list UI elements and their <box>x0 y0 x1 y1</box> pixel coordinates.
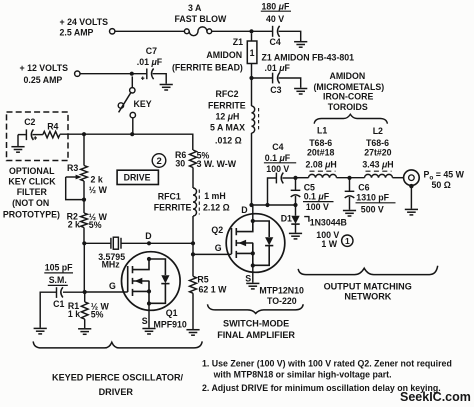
capacitor C1 105pF <box>63 291 85 293</box>
transistor Q1 MPF910 <box>122 252 181 311</box>
svg-text:12 μH: 12 μH <box>216 112 240 122</box>
svg-text:+ 12 VOLTS: + 12 VOLTS <box>20 63 69 73</box>
svg-text:105 pF: 105 pF <box>45 263 73 273</box>
wire <box>84 242 110 244</box>
svg-text:30: 30 <box>175 158 185 168</box>
svg-text:180 μF: 180 μF <box>262 1 290 11</box>
svg-text:C3: C3 <box>270 85 281 95</box>
svg-text:S: S <box>245 273 251 283</box>
node L1/L2/C6 <box>347 176 351 180</box>
svg-text:C1: C1 <box>53 299 64 309</box>
svg-text:1N3044B: 1N3044B <box>310 217 347 227</box>
svg-text:SWITCH-MODE: SWITCH-MODE <box>223 318 289 328</box>
node +12/KEY/C7 <box>130 72 134 76</box>
svg-text:40 V: 40 V <box>266 14 284 24</box>
node column/crystal <box>191 241 195 245</box>
svg-text:50 Ω: 50 Ω <box>432 180 451 190</box>
svg-text:FERRITE: FERRITE <box>208 100 246 110</box>
svg-text:D: D <box>241 205 247 215</box>
svg-text:with MTP8N18 or similar high-v: with MTP8N18 or similar high-voltage par… <box>213 369 392 379</box>
underline 0.1uF C4 <box>264 162 296 164</box>
svg-text:OPTIONAL: OPTIONAL <box>9 166 55 176</box>
svg-text:KEY: KEY <box>134 99 152 109</box>
wire <box>192 216 194 276</box>
potentiometer R3 <box>83 134 85 165</box>
underline SM <box>48 284 68 286</box>
svg-text:20t#18: 20t#18 <box>307 148 334 158</box>
svg-text:AMIDON: AMIDON <box>330 71 366 81</box>
svg-text:D: D <box>145 231 151 241</box>
svg-text:500 V: 500 V <box>361 204 384 214</box>
terminal +12V <box>75 71 80 76</box>
ground connector <box>405 209 418 215</box>
wire 12V bus <box>60 134 193 150</box>
wire <box>192 168 194 189</box>
ferrite bead Z1 <box>247 41 257 64</box>
svg-text:3 A: 3 A <box>188 3 202 13</box>
inductor L1 T68-6 <box>296 177 309 179</box>
svg-text:(FERRITE BEAD): (FERRITE BEAD) <box>172 62 243 72</box>
svg-text:+ 24 VOLTS: + 24 VOLTS <box>60 17 109 27</box>
svg-text:TO-220: TO-220 <box>267 296 297 306</box>
svg-text:1 k: 1 k <box>68 309 80 319</box>
brace switch-mode <box>208 304 304 313</box>
wire Q1 source <box>148 304 150 328</box>
svg-text:T68-6: T68-6 <box>309 138 332 148</box>
svg-text:MTP12N10: MTP12N10 <box>259 285 304 295</box>
svg-text:AMIDON: AMIDON <box>206 50 242 60</box>
svg-text:KEY CLICK: KEY CLICK <box>8 177 56 187</box>
svg-text:(MICROMETALS): (MICROMETALS) <box>314 82 385 92</box>
svg-text:MPF910: MPF910 <box>154 319 187 329</box>
capacitor C7 .01uF <box>146 69 148 80</box>
svg-text:RFC1: RFC1 <box>158 191 181 201</box>
wire <box>251 133 253 205</box>
svg-text:Z1: Z1 <box>233 37 243 47</box>
node L1 input <box>293 176 297 180</box>
drive box <box>117 170 158 184</box>
svg-text:0.1 μF: 0.1 μF <box>304 192 330 202</box>
svg-text:T68-6: T68-6 <box>366 138 389 148</box>
svg-text:.012 Ω: .012 Ω <box>215 135 242 145</box>
capacitor C4 0.1uF series <box>268 178 277 205</box>
node C1/R1/gate <box>83 290 87 294</box>
svg-text:L1: L1 <box>317 125 327 135</box>
wire <box>251 64 253 107</box>
inductor RFC1 <box>193 188 197 216</box>
wire <box>279 31 301 41</box>
svg-text:MHz: MHz <box>102 259 121 269</box>
svg-text:62 1 W: 62 1 W <box>199 285 228 295</box>
svg-text:FAST BLOW: FAST BLOW <box>175 14 227 24</box>
ground D1 <box>289 233 302 239</box>
dashed box key click filter <box>7 112 69 161</box>
zener D1 1N3044B <box>295 205 297 216</box>
resistor R5 <box>190 276 197 293</box>
svg-text:DRIVE: DRIVE <box>124 173 151 183</box>
resistor R4 <box>43 131 60 137</box>
resistor R1 <box>84 292 86 302</box>
capacitor C6 1310pF <box>349 178 351 191</box>
underline 105pF <box>44 272 73 274</box>
underline 1310pF C6 <box>356 202 396 204</box>
ground Q2 source <box>246 283 259 289</box>
svg-text:0.25 AMP: 0.25 AMP <box>24 75 63 85</box>
svg-text:1: 1 <box>250 48 255 58</box>
wire <box>80 73 146 75</box>
switch KEY <box>131 76 133 87</box>
svg-text:KEYED PIERCE OSCILLATOR/: KEYED PIERCE OSCILLATOR/ <box>52 372 184 382</box>
wire Q2 drain <box>252 205 254 221</box>
svg-text:1310 pF: 1310 pF <box>356 192 389 202</box>
terminal +24V <box>110 29 115 34</box>
brace toroids <box>314 114 387 123</box>
svg-text:S.M.: S.M. <box>49 275 67 285</box>
resistor R2 <box>81 213 88 228</box>
wire <box>115 30 184 32</box>
ground <box>11 147 24 153</box>
svg-text:NETWORK: NETWORK <box>344 292 391 302</box>
ground Q1 source <box>142 329 155 335</box>
node Z1/C3 <box>249 76 253 80</box>
inductor L2 T68-6 <box>365 174 393 177</box>
wire Q2 gate <box>193 253 232 255</box>
node crystal/R2 <box>82 241 86 245</box>
underline 0.1uF C5 <box>303 201 334 203</box>
svg-text:S: S <box>142 316 148 326</box>
wire <box>337 177 365 179</box>
node drain bus left <box>249 203 253 207</box>
capacitor C5 0.1uF <box>295 178 297 190</box>
ground <box>78 329 91 335</box>
svg-text:C4: C4 <box>272 142 283 152</box>
svg-text:2.12 Ω: 2.12 Ω <box>203 203 230 213</box>
svg-text:FINAL AMPLIFIER: FINAL AMPLIFIER <box>217 330 295 340</box>
ground R5 <box>186 330 199 336</box>
brace output matching <box>298 266 438 275</box>
svg-text:RFC2: RFC2 <box>216 89 239 99</box>
svg-text:2.08 μH: 2.08 μH <box>306 159 337 169</box>
svg-text:1 mH: 1 mH <box>204 191 226 201</box>
svg-text:C7: C7 <box>146 46 157 56</box>
svg-text:5 A MAX: 5 A MAX <box>210 122 245 132</box>
svg-text:100 V: 100 V <box>266 164 289 174</box>
svg-text:(NOT ON: (NOT ON <box>12 198 49 208</box>
svg-text:TOROIDS: TOROIDS <box>328 102 368 112</box>
ground <box>294 42 307 48</box>
crystal Y1 3.5795 MHz <box>110 238 112 249</box>
connector J1 output <box>404 170 420 186</box>
svg-text:2 k: 2 k <box>91 175 103 185</box>
svg-text:C2: C2 <box>24 117 35 127</box>
svg-text:IRON-CORE: IRON-CORE <box>323 92 373 102</box>
capacitor C4 180uF <box>272 26 274 37</box>
fuse F1 3A <box>184 29 189 34</box>
node KEY/bus <box>130 132 134 136</box>
underline 180uF <box>261 10 291 12</box>
inductor RFC2 <box>252 106 255 133</box>
svg-text:DRIVER: DRIVER <box>99 387 134 397</box>
node Q1 drain <box>147 241 151 245</box>
ground <box>294 89 307 95</box>
node column/Q2 gate <box>191 252 195 256</box>
svg-text:R3: R3 <box>67 163 78 173</box>
svg-text:3.43 μH: 3.43 μH <box>362 159 393 169</box>
ground <box>160 85 173 91</box>
svg-text:.01 μF: .01 μF <box>137 57 163 67</box>
svg-text:D1: D1 <box>281 213 292 223</box>
capacitor C3 .01uF <box>252 77 273 79</box>
svg-text:2 k: 2 k <box>68 220 80 230</box>
svg-text:SeekIC.com: SeekIC.com <box>400 390 471 404</box>
svg-text:.01 μF: .01 μF <box>265 63 291 73</box>
node drain bus D1 <box>293 203 297 207</box>
svg-text:Q2: Q2 <box>211 225 223 235</box>
node drain bus C4 branch <box>265 203 269 207</box>
wire <box>393 177 404 179</box>
svg-text:5%: 5% <box>91 310 104 320</box>
wire <box>212 30 273 32</box>
svg-text:G: G <box>109 281 116 291</box>
ground <box>34 328 47 334</box>
brace keyed pierce oscillator <box>33 341 202 348</box>
circled 2 <box>152 154 166 168</box>
svg-text:1. Use Zener (100 V) with 100: 1. Use Zener (100 V) with 100 V rated Q2… <box>202 358 452 368</box>
svg-text:1 W: 1 W <box>321 239 337 249</box>
wire Q1 gate <box>85 291 128 293</box>
wire gate node vertical <box>83 243 85 292</box>
svg-text:2.5 AMP: 2.5 AMP <box>60 28 94 38</box>
ground C6 <box>343 211 356 217</box>
svg-text:3 W. W-W: 3 W. W-W <box>197 159 237 169</box>
svg-text:½ W: ½ W <box>89 185 108 195</box>
circled 1 <box>342 235 353 246</box>
wire Q2 source <box>252 266 254 283</box>
node fuse/C4/Z1 <box>249 29 253 33</box>
svg-text:2: 2 <box>157 156 162 167</box>
svg-text:R5: R5 <box>197 275 208 285</box>
zener mark <box>304 217 309 222</box>
svg-text:C6: C6 <box>358 182 369 192</box>
svg-text:FERRITE: FERRITE <box>154 203 192 213</box>
svg-text:27t#20: 27t#20 <box>364 148 391 158</box>
capacitor C2 <box>18 134 26 136</box>
svg-text:PROTOTYPE): PROTOTYPE) <box>3 210 60 220</box>
svg-text:100 V: 100 V <box>306 202 329 212</box>
svg-text:R4: R4 <box>47 121 58 131</box>
resistor R6 <box>190 150 197 168</box>
svg-text:Q1: Q1 <box>166 308 178 318</box>
svg-text:5%: 5% <box>89 220 102 230</box>
svg-text:G: G <box>215 243 222 253</box>
svg-text:Z1 AMIDON FB-43-801: Z1 AMIDON FB-43-801 <box>262 52 355 62</box>
wire drain bus <box>252 204 296 206</box>
svg-text:0.1 μF: 0.1 μF <box>265 153 291 163</box>
wire <box>251 33 253 41</box>
node bus/R3 <box>82 132 86 136</box>
svg-text:FILTER: FILTER <box>17 187 48 197</box>
transistor Q2 MTP12N10 <box>226 214 285 273</box>
svg-text:C4: C4 <box>270 37 281 47</box>
svg-text:OUTPUT MATCHING: OUTPUT MATCHING <box>324 281 412 291</box>
svg-text:L2: L2 <box>373 126 383 136</box>
svg-text:1: 1 <box>345 236 350 246</box>
